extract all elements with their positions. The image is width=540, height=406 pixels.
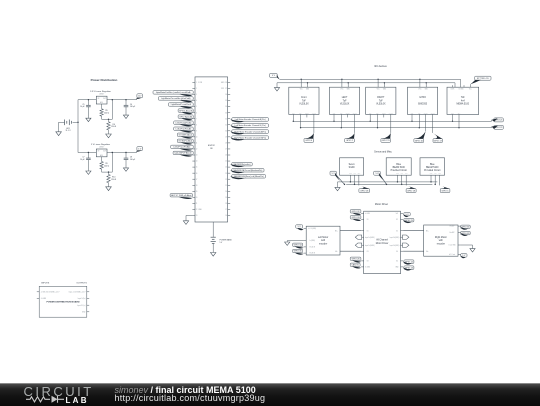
svg-text:ADJ: ADJ bbox=[100, 154, 103, 157]
svg-text:S1: S1 bbox=[367, 219, 369, 221]
svg-text:GPIO 18: GPIO 18 bbox=[360, 190, 369, 192]
svg-text:ToF: ToF bbox=[302, 100, 306, 102]
svg-text:SDA: SDA bbox=[458, 111, 461, 114]
svg-text:38: 38 bbox=[225, 82, 227, 84]
svg-text:10: 10 bbox=[196, 136, 198, 138]
svg-text:LightMotor/Pr swtPin A: LightMotor/Pr swtPin A bbox=[171, 103, 192, 106]
svg-text:LM317: LM317 bbox=[99, 146, 104, 148]
svg-text:22: 22 bbox=[225, 179, 227, 181]
svg-text:VCC: VCC bbox=[353, 173, 356, 175]
svg-text:GND: GND bbox=[198, 209, 202, 211]
svg-text:35: 35 bbox=[225, 100, 227, 102]
svg-text:1: 1 bbox=[196, 82, 197, 84]
svg-text:GND: GND bbox=[396, 173, 399, 175]
svg-text:17: 17 bbox=[196, 179, 198, 181]
svg-text:In 5 V (GND): In 5 V (GND) bbox=[308, 228, 316, 230]
svg-text:SDA: SDA bbox=[376, 111, 379, 114]
svg-text:Input +5 LM (VIN) +2.5 V: Input +5 LM (VIN) +2.5 V bbox=[69, 291, 86, 294]
svg-text:6: 6 bbox=[196, 112, 197, 114]
svg-text:VCC: VCC bbox=[418, 88, 421, 90]
svg-text:16: 16 bbox=[196, 173, 198, 175]
svg-text:In votr GND: In votr GND bbox=[448, 244, 455, 247]
svg-text:Blue: Blue bbox=[430, 164, 435, 166]
svg-text:18: 18 bbox=[225, 203, 227, 205]
svg-text:21: 21 bbox=[196, 203, 198, 205]
svg-text:12: 12 bbox=[196, 149, 198, 151]
svg-text:Servos and Misc: Servos and Misc bbox=[374, 150, 392, 153]
svg-text:GPIO 17: GPIO 17 bbox=[434, 140, 443, 142]
svg-text:GpioMotorDrv/Bas (conflict) sw: GpioMotorDrv/Bas (conflict) swchPinA bbox=[156, 91, 191, 94]
svg-text:GPIO Bpin Ad: GPIO Bpin Ad bbox=[179, 115, 192, 118]
svg-text:XSHUT: XSHUT bbox=[312, 112, 316, 114]
svg-text:IgnLcBtPnP Abcde: IgnLcBtPnP Abcde bbox=[175, 152, 193, 155]
svg-text:GPIO 4: GPIO 4 bbox=[305, 140, 313, 142]
svg-text:8: 8 bbox=[196, 124, 197, 126]
svg-text:S2: S2 bbox=[396, 219, 398, 221]
svg-text:Enc B/ B: Enc B/ B bbox=[310, 253, 315, 255]
svg-text:GPIO2 Anad B: GPIO2 Anad B bbox=[179, 109, 193, 112]
svg-text:GND: GND bbox=[349, 173, 352, 175]
svg-text:ST7735 LCD: ST7735 LCD bbox=[477, 78, 489, 80]
svg-text:5 V: 5 V bbox=[220, 242, 223, 244]
svg-text:3.3 GND: 3.3 GND bbox=[458, 88, 463, 90]
svg-text:ADP IC 7009 µF Abcd: ADP IC 7009 µF Abcd bbox=[171, 194, 191, 197]
svg-text:GPIO 15: GPIO 15 bbox=[382, 140, 391, 142]
svg-text:3V3: 3V3 bbox=[221, 88, 224, 90]
svg-text:GPIO 26: GPIO 26 bbox=[352, 259, 361, 261]
svg-text:Input 5v1(GND): Input 5v1(GND) bbox=[365, 236, 375, 239]
svg-text:5v GND: 5v GND bbox=[365, 267, 370, 269]
svg-text:GPIO 32: GPIO 32 bbox=[352, 211, 361, 213]
svg-text:SDA: SDA bbox=[418, 111, 421, 114]
svg-text:SG90: SG90 bbox=[349, 167, 356, 169]
svg-text:Enc A/ B: Enc A/ B bbox=[310, 246, 315, 249]
svg-text:VCC: VCC bbox=[469, 88, 472, 90]
svg-text:100 µF: 100 µF bbox=[130, 106, 135, 108]
svg-text:11: 11 bbox=[196, 143, 198, 145]
svg-text:S3: S3 bbox=[367, 261, 369, 263]
svg-text:30: 30 bbox=[225, 130, 227, 132]
svg-text:I2C devices: I2C devices bbox=[374, 65, 387, 68]
svg-text:ESP32: ESP32 bbox=[208, 145, 216, 147]
svg-text:100 µF: 100 µF bbox=[130, 159, 135, 161]
svg-text:GPIO 2: GPIO 2 bbox=[346, 140, 354, 142]
svg-text:Left Motor Encoder Channel A (: Left Motor Encoder Channel A (Pin) bbox=[235, 118, 266, 121]
svg-text:Provided Circuit: Provided Circuit bbox=[391, 169, 408, 172]
svg-text:GPIO 22: GPIO 22 bbox=[495, 127, 504, 129]
svg-text:20: 20 bbox=[225, 191, 227, 193]
svg-text:LcButPI (DgPnl) Ab: LcButPI (DgPnl) Ab bbox=[175, 121, 191, 124]
svg-text:Left Motor: Left Motor bbox=[318, 236, 329, 239]
svg-text:IN: IN bbox=[98, 98, 100, 100]
svg-text:BEAM 5100: BEAM 5100 bbox=[393, 166, 406, 169]
svg-text:17: 17 bbox=[225, 209, 227, 211]
svg-text:GO BtPn Abcd: GO BtPn Abcd bbox=[179, 133, 192, 136]
svg-text:Sgnl: Sgnl bbox=[438, 173, 441, 175]
svg-text:21: 21 bbox=[225, 185, 227, 187]
svg-text:GND: GND bbox=[82, 312, 86, 314]
svg-text:22: 22 bbox=[196, 209, 198, 211]
svg-text:GPIO1: GPIO1 bbox=[424, 112, 428, 114]
svg-text:38: 38 bbox=[210, 148, 213, 150]
svg-text:MEMA 5100: MEMA 5100 bbox=[457, 103, 470, 106]
svg-text:SCL: SCL bbox=[369, 112, 372, 114]
svg-text:OUTPUTS: OUTPUTS bbox=[76, 282, 87, 284]
svg-text:S4: S4 bbox=[396, 261, 398, 263]
svg-text:Blue: Blue bbox=[396, 164, 401, 166]
svg-text:Right Motor Encoder Channel A(: Right Motor Encoder Channel A(Pin) bbox=[234, 130, 266, 133]
svg-text:O3: O3 bbox=[367, 251, 369, 253]
svg-text:VL53L0X: VL53L0X bbox=[340, 104, 350, 106]
svg-text:GND: GND bbox=[383, 88, 386, 90]
svg-text:16: 16 bbox=[225, 215, 227, 217]
svg-text:24: 24 bbox=[225, 167, 227, 169]
svg-text:15: 15 bbox=[196, 167, 198, 169]
svg-text:LightMotor/Ter swtBtn (pDrvPin: LightMotor/Ter swtBtn (pDrvPinA) bbox=[161, 97, 191, 100]
svg-text:SDA: SDA bbox=[299, 111, 302, 114]
svg-text:Provided Circuit: Provided Circuit bbox=[424, 169, 441, 172]
svg-text:XSHUT: XSHUT bbox=[430, 112, 434, 114]
svg-text:GPIO1: GPIO1 bbox=[305, 112, 309, 114]
svg-text:19: 19 bbox=[196, 191, 198, 193]
svg-text:240 Ω: 240 Ω bbox=[104, 113, 109, 115]
svg-text:CAN 5V: CAN 5V bbox=[351, 264, 359, 267]
svg-text:19: 19 bbox=[225, 197, 227, 199]
svg-text:XSHUT: XSHUT bbox=[389, 112, 393, 114]
svg-text:Power Distribution: Power Distribution bbox=[91, 78, 118, 82]
svg-text:O1: O1 bbox=[367, 230, 369, 232]
svg-text:with: with bbox=[321, 239, 326, 242]
svg-text:Enc B/P: Enc B/P bbox=[450, 232, 455, 234]
svg-text:LcButPI (cnPt) Abc: LcButPI (cnPt) Abc bbox=[173, 146, 190, 149]
svg-text:Mtr+: Mtr+ bbox=[335, 229, 338, 232]
svg-text:3.3 V: 3.3 V bbox=[138, 96, 141, 98]
svg-text:with: with bbox=[439, 239, 444, 242]
svg-text:+5 VIN, 3.3 LM (VIN) +2.5 V: +5 VIN, 3.3 LM (VIN) +2.5 V bbox=[41, 292, 60, 294]
svg-text:9: 9 bbox=[196, 130, 197, 132]
svg-text:VL53L0X: VL53L0X bbox=[376, 104, 386, 106]
svg-text:33: 33 bbox=[225, 112, 227, 114]
svg-text:GPIO 34: GPIO 34 bbox=[294, 245, 303, 247]
svg-text:+5 GND: +5 GND bbox=[41, 298, 47, 300]
svg-text:SDA: SDA bbox=[340, 111, 343, 114]
svg-text:ADJ: ADJ bbox=[100, 101, 103, 104]
svg-text:IN: IN bbox=[98, 151, 100, 153]
svg-text:Left Motor Encoder Channel B (: Left Motor Encoder Channel B (Pin) bbox=[235, 124, 266, 127]
svg-text:23: 23 bbox=[225, 173, 227, 175]
svg-text:GND: GND bbox=[395, 267, 398, 269]
svg-text:POWER DISTRIBUTION BOARD: POWER DISTRIBUTION BOARD bbox=[46, 301, 79, 304]
svg-text:VCC: VCC bbox=[300, 88, 303, 90]
svg-text:31: 31 bbox=[225, 124, 227, 126]
svg-text:Front: Front bbox=[301, 96, 307, 99]
svg-text:GND: GND bbox=[430, 173, 433, 175]
svg-text:SCL: SCL bbox=[411, 112, 414, 114]
svg-text:In 5VIN: In 5VIN bbox=[365, 213, 370, 215]
svg-text:20: 20 bbox=[196, 197, 198, 199]
svg-text:25: 25 bbox=[225, 161, 227, 163]
svg-text:Mtr+: Mtr+ bbox=[426, 229, 429, 232]
svg-text:VCC: VCC bbox=[377, 88, 380, 90]
svg-text:O2: O2 bbox=[396, 230, 398, 232]
svg-text:Right Motor Encoder Channel B(: Right Motor Encoder Channel B(Pin) bbox=[234, 136, 266, 139]
svg-text:O4: O4 bbox=[396, 251, 398, 253]
svg-text:VL53L0X: VL53L0X bbox=[299, 104, 309, 106]
svg-text:VCC: VCC bbox=[434, 173, 437, 175]
svg-text:GPIO1: GPIO1 bbox=[346, 112, 350, 114]
svg-text:VCC: VCC bbox=[400, 173, 403, 175]
svg-text:23: 23 bbox=[196, 215, 198, 217]
svg-text:10 µF: 10 µF bbox=[80, 106, 84, 108]
svg-text:7: 7 bbox=[196, 118, 197, 120]
svg-text:13: 13 bbox=[196, 155, 198, 157]
svg-text:37: 37 bbox=[225, 88, 227, 90]
svg-text:LEFT: LEFT bbox=[342, 97, 348, 99]
svg-text:MAX98357A (Rear) crd (BkoutPin: MAX98357A (Rear) crd (BkoutPin) bbox=[234, 175, 264, 178]
svg-text:GPIO 33: GPIO 33 bbox=[352, 217, 361, 219]
svg-text:Input 5v1(GND): Input 5v1(GND) bbox=[365, 244, 375, 247]
svg-text:BEAM 5100: BEAM 5100 bbox=[426, 166, 439, 169]
svg-text:encoder: encoder bbox=[319, 242, 328, 245]
svg-text:LcButPI (nPnl) Ab: LcButPI (nPnl) Ab bbox=[176, 127, 192, 130]
svg-text:11.1 V: 11.1 V bbox=[65, 130, 71, 132]
svg-text:ToF: ToF bbox=[379, 100, 383, 102]
svg-text:SCL: SCL bbox=[333, 112, 336, 114]
svg-text:26: 26 bbox=[225, 155, 227, 157]
svg-text:SCL: SCL bbox=[292, 112, 295, 114]
svg-text:GO BnPn Abcd: GO BnPn Abcd bbox=[178, 140, 192, 143]
svg-text:390 Ω: 390 Ω bbox=[111, 179, 116, 181]
svg-text:GND: GND bbox=[347, 88, 350, 90]
svg-text:Mtr-: Mtr- bbox=[426, 250, 429, 253]
svg-text:5: 5 bbox=[196, 106, 197, 108]
svg-text:GPIO 19: GPIO 19 bbox=[407, 190, 416, 192]
svg-text:In 5 V votr: In 5 V votr bbox=[449, 253, 456, 256]
svg-text:GYRO: GYRO bbox=[419, 97, 426, 99]
svg-text:GPIO 35: GPIO 35 bbox=[294, 251, 303, 253]
svg-text:4x4: 4x4 bbox=[461, 100, 465, 102]
svg-text:Sgnl: Sgnl bbox=[405, 173, 408, 175]
svg-text:GND: GND bbox=[306, 88, 309, 90]
svg-text:SCL: SCL bbox=[451, 112, 454, 114]
svg-text:ToF: ToF bbox=[461, 97, 465, 99]
svg-text:240 Ω: 240 Ω bbox=[104, 165, 109, 167]
svg-text:MAX98357A I2s snd (BreakoutPin: MAX98357A I2s snd (BreakoutPin) bbox=[234, 169, 263, 172]
svg-text:GPIO 5: GPIO 5 bbox=[442, 190, 450, 192]
svg-text:BNO055: BNO055 bbox=[418, 104, 428, 106]
svg-text:14: 14 bbox=[196, 161, 198, 163]
svg-text:18: 18 bbox=[196, 185, 198, 187]
svg-text:4: 4 bbox=[196, 100, 197, 102]
svg-text:OUT: OUT bbox=[103, 151, 106, 153]
svg-text:390 Ω: 390 Ω bbox=[111, 126, 116, 128]
svg-text:GPIO 16: GPIO 16 bbox=[415, 140, 424, 142]
svg-text:VCC: VCC bbox=[340, 88, 343, 90]
svg-text:Input 5 (5v): Input 5 (5v) bbox=[78, 297, 86, 300]
svg-text:In (GND): In (GND) bbox=[310, 240, 316, 242]
svg-text:encoder: encoder bbox=[437, 242, 446, 245]
svg-text:XSHUT: XSHUT bbox=[352, 112, 356, 114]
svg-text:INPUTS: INPUTS bbox=[41, 282, 50, 284]
svg-text:All Channel: All Channel bbox=[376, 239, 388, 242]
svg-text:Input 5v2(GND): Input 5v2(GND) bbox=[390, 244, 400, 247]
svg-text:32: 32 bbox=[225, 118, 227, 120]
svg-text:34: 34 bbox=[225, 106, 227, 108]
svg-text:36: 36 bbox=[225, 94, 227, 96]
svg-text:RIGHT: RIGHT bbox=[377, 97, 385, 99]
svg-text:GPIO 21: GPIO 21 bbox=[495, 120, 504, 122]
svg-text:5 VIN: 5 VIN bbox=[198, 82, 203, 84]
svg-text:Motor Driver: Motor Driver bbox=[375, 203, 388, 206]
svg-text:ToF: ToF bbox=[343, 100, 347, 102]
svg-text:3: 3 bbox=[196, 94, 197, 96]
svg-text:Input 3.3 (v): Input 3.3 (v) bbox=[77, 304, 86, 307]
svg-text:Sgnl: Sgnl bbox=[358, 173, 361, 175]
svg-text:2: 2 bbox=[196, 88, 197, 90]
svg-text:GND: GND bbox=[425, 88, 428, 90]
svg-text:27: 27 bbox=[225, 149, 227, 151]
svg-text:LM317: LM317 bbox=[99, 94, 104, 96]
svg-text:GPIO1: GPIO1 bbox=[382, 112, 386, 114]
svg-text:LEDK: LEDK bbox=[451, 88, 455, 90]
svg-text:Mtr-: Mtr- bbox=[335, 250, 338, 253]
svg-text:OUT: OUT bbox=[103, 98, 106, 100]
svg-text:Input 5v2(GND): Input 5v2(GND) bbox=[390, 236, 400, 239]
svg-text:5v2: 5v2 bbox=[396, 213, 398, 215]
svg-text:10 µF: 10 µF bbox=[80, 159, 84, 161]
svg-text:28: 28 bbox=[225, 143, 227, 145]
svg-text:Motor Driver: Motor Driver bbox=[376, 242, 389, 245]
svg-text:29: 29 bbox=[225, 136, 227, 138]
svg-text:Servo: Servo bbox=[349, 163, 356, 166]
svg-text:Right Motor: Right Motor bbox=[435, 236, 447, 239]
